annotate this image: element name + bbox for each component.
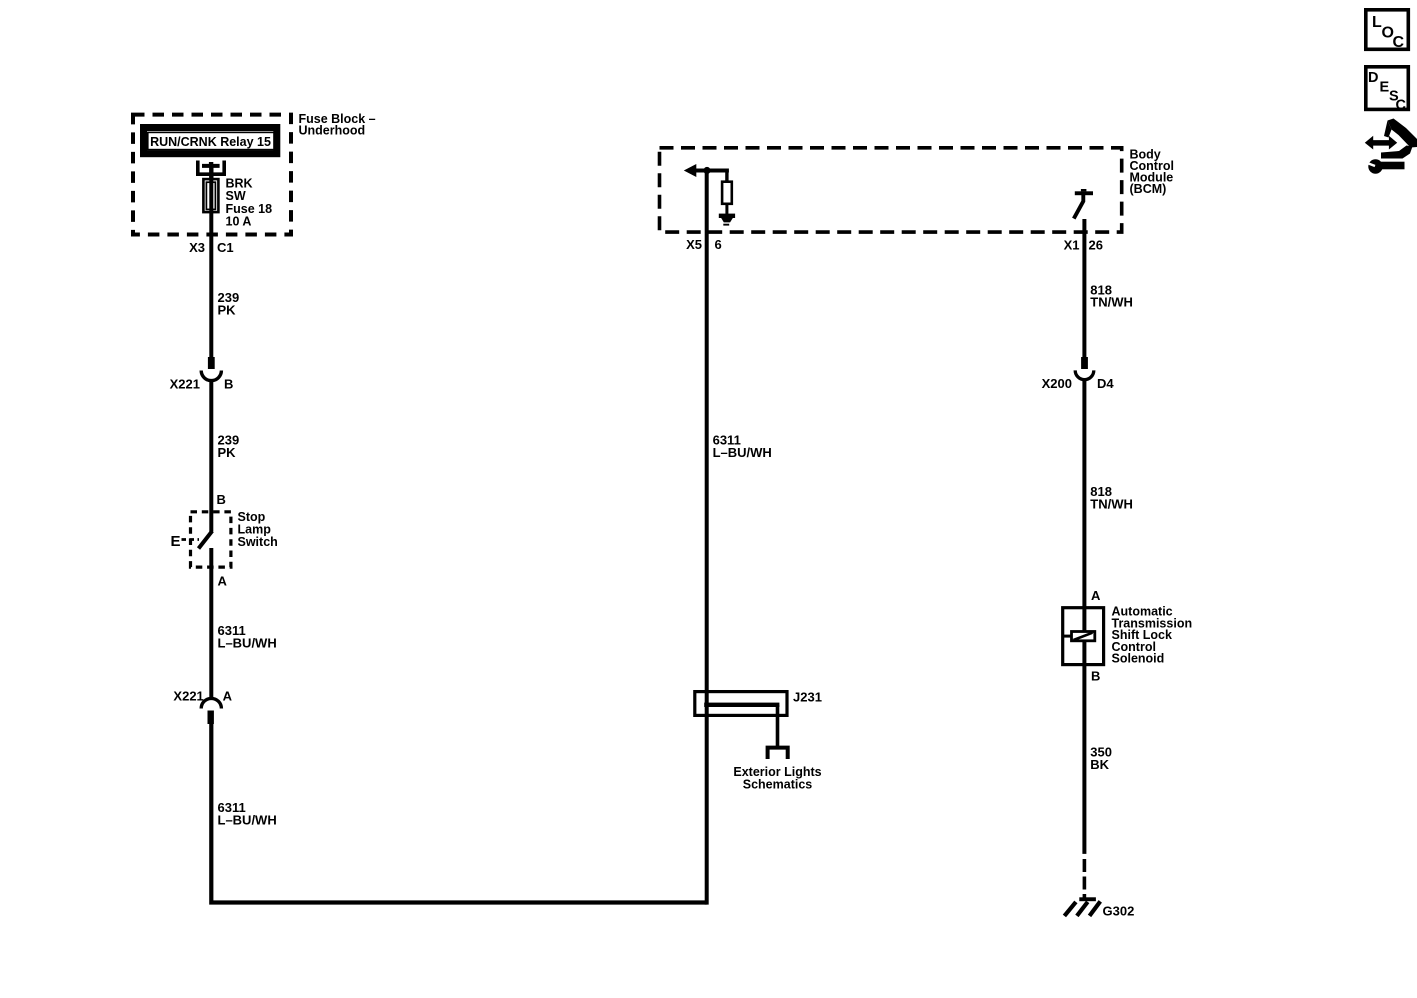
stop lamp switch dashed box	[191, 512, 231, 567]
off-page connector bracket	[768, 748, 788, 759]
svg-text:E: E	[1380, 80, 1390, 96]
DESC button	[1366, 67, 1409, 110]
svg-text:X5: X5	[686, 237, 702, 252]
wire middle column vertical	[705, 171, 709, 905]
svg-text:G302: G302	[1103, 904, 1135, 919]
connector X221 B	[208, 357, 215, 369]
svg-text:Schematics: Schematics	[743, 777, 813, 791]
svg-text:X221: X221	[170, 377, 200, 392]
svg-text:B: B	[217, 492, 226, 507]
svg-text:Solenoid: Solenoid	[1112, 652, 1165, 666]
service icon double arrow	[1365, 136, 1397, 150]
svg-text:PK: PK	[218, 303, 237, 318]
svg-text:BK: BK	[1090, 757, 1109, 772]
svg-text:TN/WH: TN/WH	[1090, 497, 1133, 512]
svg-text:L–BU/WH: L–BU/WH	[713, 445, 772, 460]
service icon wrench	[1368, 159, 1382, 173]
solenoid box	[1063, 608, 1104, 665]
wire fuse to connector X221	[209, 213, 213, 358]
wire relay to fuse	[209, 166, 213, 180]
svg-text:(BCM): (BCM)	[1130, 182, 1167, 196]
switch blade	[199, 531, 213, 549]
relay contact terminal	[198, 161, 224, 175]
branch wire to exterior lights	[776, 705, 780, 746]
svg-text:B: B	[224, 377, 233, 392]
svg-text:C: C	[1393, 34, 1405, 51]
BCM internal resistor	[725, 171, 728, 182]
svg-text:L–BU/WH: L–BU/WH	[218, 636, 277, 651]
svg-text:Underhood: Underhood	[299, 124, 366, 138]
wire through fuse	[209, 179, 213, 213]
svg-text:X221: X221	[173, 688, 203, 703]
wire solenoid to ground	[1082, 641, 1086, 854]
svg-text:B: B	[1091, 669, 1100, 684]
svg-text:D: D	[1368, 70, 1378, 86]
svg-text:L: L	[1372, 14, 1382, 31]
wire bottom run to middle column	[211, 722, 706, 903]
svg-text:C: C	[1396, 98, 1407, 114]
svg-text:Switch: Switch	[238, 535, 278, 549]
LOC button	[1366, 10, 1409, 50]
connector X221 A	[201, 698, 221, 708]
fuse BRK SW Fuse 18 10 A	[203, 179, 218, 212]
wire dashed to ground	[1083, 859, 1087, 899]
wire connector to switch	[209, 380, 213, 532]
service icon bent arrow	[1388, 119, 1417, 148]
svg-text:A: A	[1091, 588, 1101, 603]
svg-text:26: 26	[1089, 238, 1103, 253]
splice J231	[695, 692, 787, 716]
BCM internal signal arrow	[684, 164, 697, 177]
ground G302	[1079, 897, 1096, 901]
svg-text:C1: C1	[217, 240, 234, 255]
svg-text:J231: J231	[793, 690, 822, 705]
svg-text:A: A	[218, 573, 228, 588]
svg-text:X1: X1	[1064, 238, 1080, 253]
svg-text:X200: X200	[1042, 376, 1072, 391]
BCM driver output transistor	[1075, 191, 1093, 195]
wire switch to X221 A	[209, 548, 213, 699]
svg-text:E: E	[171, 533, 181, 550]
junction dot	[703, 167, 710, 174]
svg-text:L–BU/WH: L–BU/WH	[218, 813, 277, 828]
connector X200 D4	[1081, 357, 1088, 369]
svg-text:D4: D4	[1097, 376, 1114, 391]
wire X200 to solenoid	[1082, 379, 1086, 631]
svg-text:A: A	[223, 688, 233, 703]
svg-text:TN/WH: TN/WH	[1090, 295, 1133, 310]
solenoid coil element	[1063, 635, 1072, 638]
BCM internal ground	[719, 214, 735, 218]
fuse block underhood dashed box	[133, 115, 291, 235]
svg-text:10 A: 10 A	[226, 215, 252, 229]
BCM dashed box	[660, 148, 1122, 232]
svg-text:X3: X3	[189, 240, 205, 255]
svg-text:6: 6	[715, 237, 722, 252]
svg-text:PK: PK	[218, 445, 237, 460]
relay RUN/CRNK Relay 15	[144, 128, 277, 154]
svg-text:RUN/CRNK Relay 15: RUN/CRNK Relay 15	[150, 135, 271, 149]
wire BCM pin to X200	[1082, 219, 1086, 358]
